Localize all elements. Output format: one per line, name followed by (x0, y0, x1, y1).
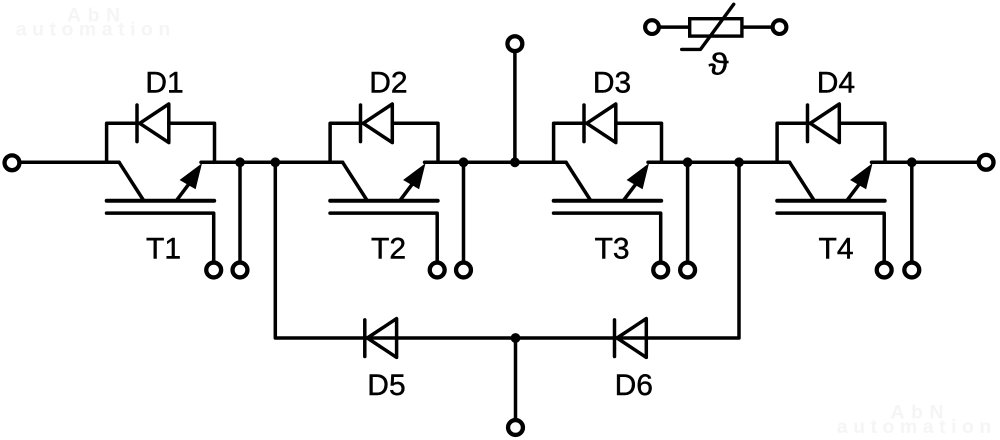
wire (554, 123, 586, 162)
svg-text:D5: D5 (367, 369, 405, 402)
diode D3 (584, 104, 616, 143)
terminal emitter-aux E4 (904, 263, 919, 278)
node clamp junction 3 (734, 157, 744, 167)
diode D1 (137, 104, 169, 143)
terminal emitter-aux E1 (233, 263, 248, 278)
node emitter E2 (459, 157, 469, 167)
wire (839, 123, 885, 162)
label T1 (146, 233, 181, 266)
thermistor RT1 (645, 4, 786, 49)
terminal gate G3 (653, 263, 668, 278)
label D1 (145, 67, 183, 100)
wire (21, 161, 119, 165)
wire (201, 161, 343, 165)
wire (330, 123, 362, 162)
svg-text:ϑ: ϑ (709, 46, 729, 81)
svg-text:T4: T4 (819, 233, 854, 266)
diode D2 (361, 104, 393, 143)
wire (872, 161, 978, 165)
diode D4 (808, 104, 840, 143)
label theta (thermistor) (709, 46, 729, 81)
label D4 (817, 67, 855, 100)
svg-text:D3: D3 (593, 67, 631, 100)
transistor T4 (IGBT) (777, 162, 885, 262)
label D6 (615, 369, 653, 402)
transistor T1 (IGBT) (107, 162, 215, 262)
svg-text:T1: T1 (146, 233, 181, 266)
node bottom-center junction (511, 333, 521, 343)
svg-text:D2: D2 (369, 67, 407, 100)
terminal 2 (top center) (507, 36, 522, 51)
svg-text:automation: automation (837, 416, 997, 438)
diode D5 (365, 319, 397, 358)
wire (392, 123, 438, 162)
watermark bottom-right (837, 401, 997, 438)
terminal gate G2 (430, 263, 445, 278)
terminal 1 (collector T1, left) (5, 155, 20, 170)
node emitter E1 (235, 157, 245, 167)
wire (777, 123, 809, 162)
node top-center junction (510, 157, 520, 167)
svg-text:T3: T3 (595, 233, 630, 266)
terminal 3 (emitter T4, right) (979, 155, 994, 170)
transistor T3 (IGBT) (554, 162, 662, 262)
label T3 (595, 233, 630, 266)
terminal emitter-aux E3 (680, 263, 695, 278)
label T4 (819, 233, 854, 266)
wire (462, 162, 466, 262)
wire (686, 162, 690, 262)
terminal emitter-aux E2 (456, 263, 471, 278)
wire (910, 162, 914, 262)
node emitter E4 (907, 157, 917, 167)
wire (648, 161, 790, 165)
watermark top-left (16, 4, 176, 40)
svg-text:D1: D1 (145, 67, 183, 100)
wire (107, 123, 139, 162)
terminal gate G4 (877, 263, 892, 278)
svg-text:D6: D6 (615, 369, 653, 402)
wire (425, 161, 567, 165)
transistor T2 (IGBT) (330, 162, 438, 262)
label T2 (371, 233, 406, 266)
wire (616, 123, 662, 162)
label D3 (593, 67, 631, 100)
label D5 (367, 369, 405, 402)
wire (238, 162, 242, 262)
terminal 4 (bottom center) (508, 420, 523, 435)
wire (513, 53, 517, 163)
svg-text:T2: T2 (371, 233, 406, 266)
diode D6 (615, 319, 647, 358)
svg-text:automation: automation (16, 18, 176, 40)
wire (275, 162, 739, 338)
node emitter E3 (683, 157, 693, 167)
wire (514, 338, 518, 418)
svg-text:D4: D4 (817, 67, 855, 100)
node clamp junction 1 (270, 157, 280, 167)
terminal gate G1 (206, 263, 221, 278)
wire (169, 123, 215, 162)
label D2 (369, 67, 407, 100)
